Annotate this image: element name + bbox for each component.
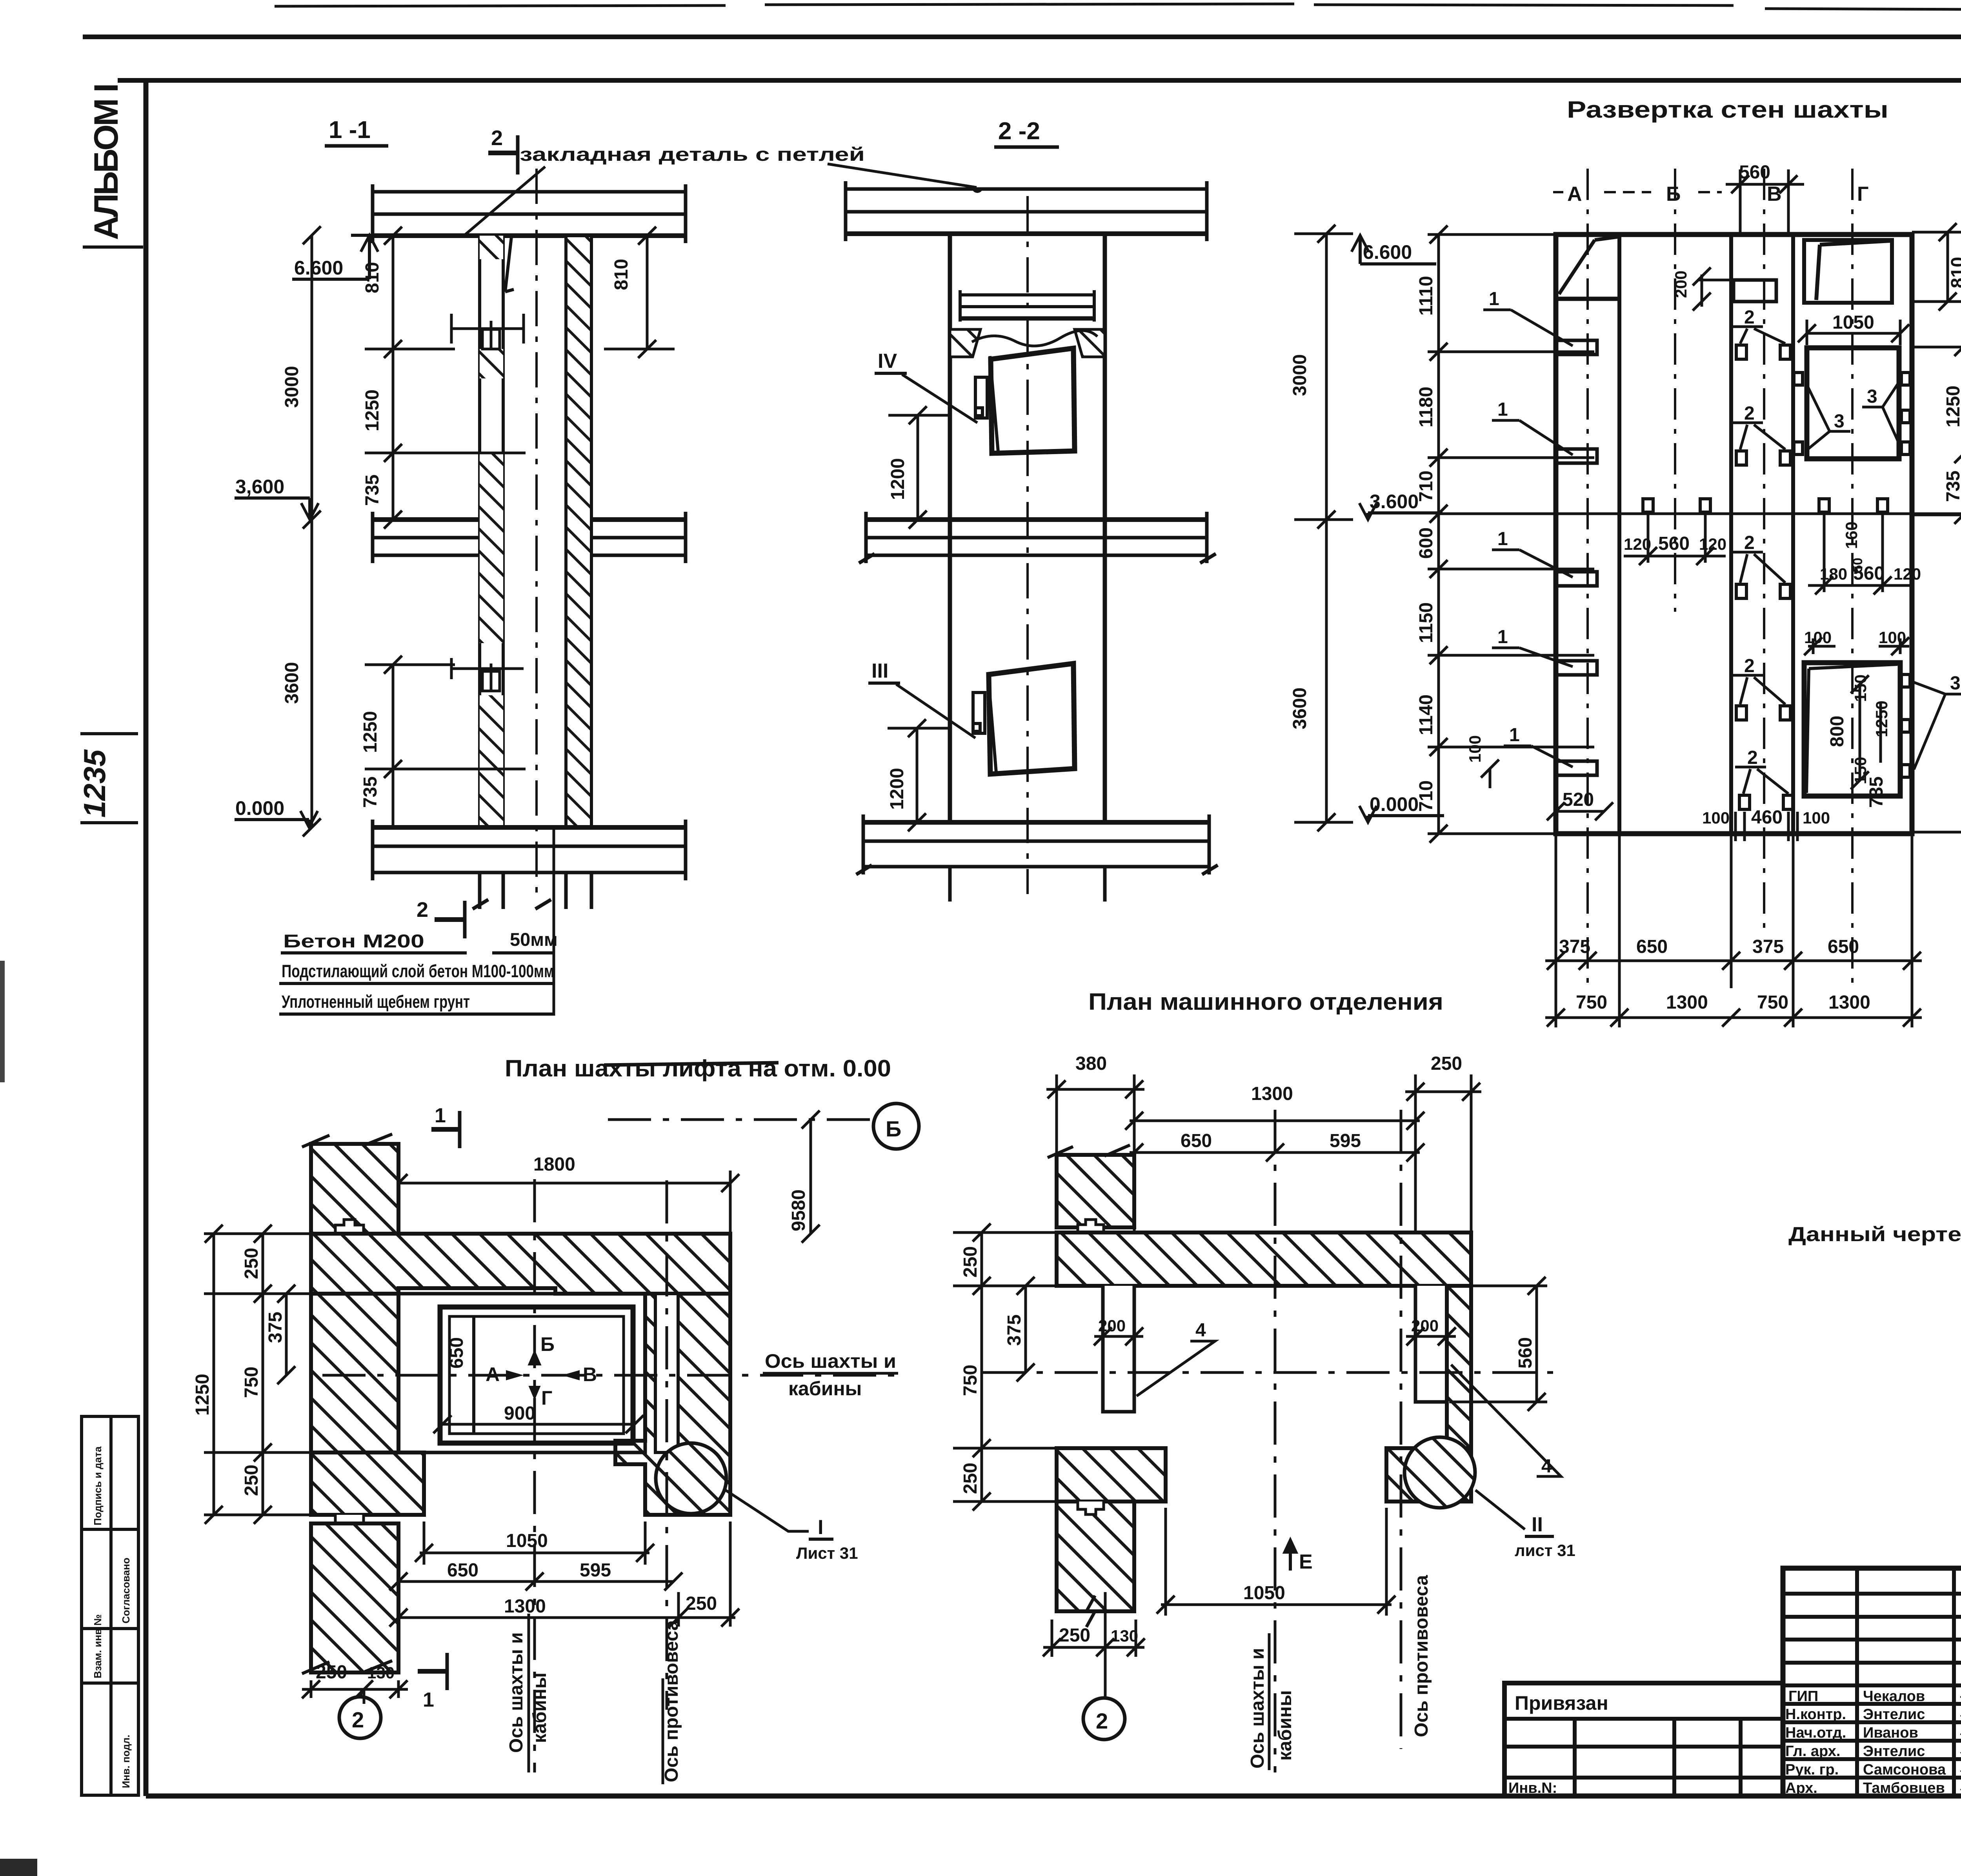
svg-text:Н.контр.: Н.контр. [1785, 1706, 1846, 1723]
stamp vertical col line 1 [1855, 1568, 1859, 1796]
svg-text:Ось противовеса: Ось противовеса [661, 1620, 682, 1782]
svg-text:Б: Б [540, 1333, 555, 1355]
svg-text:100: 100 [1702, 809, 1730, 827]
svg-text:180: 180 [1820, 565, 1847, 583]
axis circle 2 connector [361, 1689, 362, 1697]
dim 1300 machine [1125, 1106, 1424, 1232]
svg-text:6.600: 6.600 [1363, 241, 1412, 263]
development bottom extensions [1545, 834, 1922, 1027]
svg-text:100: 100 [1804, 628, 1832, 647]
cut mark 2 bottom [435, 901, 465, 938]
mid anchors strip B [1624, 499, 1726, 565]
left edge scan streak [0, 961, 5, 1082]
svg-text:План шахты лифта на отм. 0.: План шахты лифта на отм. 0.00 [505, 1055, 891, 1082]
svg-text:810: 810 [611, 259, 632, 290]
wall A top fold line [1556, 237, 1619, 299]
svg-text:Подпись и дата: Подпись и дата [92, 1446, 104, 1525]
machine joint notch bottom [1078, 1502, 1104, 1514]
1235 tick bottom [80, 821, 138, 824]
mid door label 3 left [1806, 382, 1850, 451]
level 3.600 flag left [235, 498, 318, 520]
svg-text:1150: 1150 [1416, 602, 1437, 643]
cabin inner rect [449, 1316, 624, 1434]
dim 560 top [1726, 169, 1804, 234]
2-2 wall stubs below [948, 867, 952, 902]
note line 1b underline [492, 951, 554, 954]
label III underline [868, 682, 900, 685]
svg-text:650: 650 [447, 1560, 478, 1581]
left wall hatch A [480, 236, 503, 259]
machine left column upper [1057, 1155, 1134, 1227]
1235 tick top [80, 732, 138, 735]
svg-text:750: 750 [241, 1367, 262, 1398]
machine horizontal axis [982, 1371, 1553, 1374]
wall G top opening [1804, 240, 1892, 303]
plan vertical axis [533, 1179, 536, 1772]
label 3 right of development [1914, 673, 1961, 769]
ledge label 3 [1492, 529, 1573, 577]
svg-text:4: 4 [1195, 1320, 1206, 1341]
right chain 810 [1939, 223, 1957, 311]
joint notch bottom [335, 1515, 364, 1529]
axis V [1763, 169, 1765, 933]
svg-text:В: В [583, 1363, 597, 1385]
dim 250 top right [1405, 1074, 1481, 1232]
guide ledge 4 [1556, 661, 1597, 675]
svg-text:3000: 3000 [282, 366, 302, 408]
dim 1200 upper [888, 406, 949, 529]
svg-text:Нач.отд.: Нач.отд. [1785, 1725, 1846, 1741]
axis labels right underline [763, 1372, 898, 1375]
svg-text:375: 375 [1752, 936, 1784, 957]
svg-text:250: 250 [686, 1593, 717, 1614]
left upper column break [302, 1134, 392, 1147]
svg-text:250: 250 [241, 1465, 262, 1496]
svg-text:Лист 31: Лист 31 [796, 1544, 858, 1562]
svg-text:3600: 3600 [1290, 687, 1310, 729]
embedded detail dot [972, 187, 983, 193]
dim 100 above lower door left [1804, 637, 1835, 655]
left wall hatch C [480, 453, 503, 643]
lower door fold [1806, 669, 1809, 793]
svg-text:100: 100 [1879, 628, 1906, 647]
svg-text:1140: 1140 [1416, 694, 1437, 735]
machine bottom wall left part [1057, 1448, 1166, 1502]
svg-text:2: 2 [352, 1707, 364, 1732]
counterweight axis line [666, 1180, 668, 1710]
svg-text:750: 750 [1757, 992, 1788, 1013]
machine vertical axis cabin [1274, 1110, 1277, 1772]
svg-text:2: 2 [1744, 307, 1755, 328]
level 0.000 flag left [235, 811, 318, 827]
attachment row 2 [1504, 1776, 1783, 1780]
svg-text:250: 250 [241, 1248, 262, 1279]
machine axis circle 2 [1083, 1698, 1125, 1740]
svg-text:ГИП: ГИП [1788, 1688, 1818, 1705]
svg-text:1: 1 [1497, 627, 1508, 647]
ledge label 5 [1504, 725, 1573, 767]
bottom chain 2 line [1545, 1016, 1922, 1019]
svg-text:735: 735 [360, 776, 381, 808]
anchor pair 5 strip V bottom [1735, 767, 1794, 809]
svg-text:200: 200 [1098, 1316, 1126, 1335]
machine floor corbel left [950, 329, 980, 357]
shaft inner boundary [398, 1294, 645, 1452]
svg-text:кабины: кабины [788, 1378, 862, 1400]
joint notch top [335, 1220, 364, 1234]
svg-text:Гл. арх.: Гл. арх. [1785, 1743, 1840, 1760]
svg-text:200: 200 [1411, 1316, 1439, 1335]
door IV fold [990, 356, 998, 452]
2-2 top slab bottom [846, 231, 1207, 236]
E arrow [1285, 1540, 1296, 1571]
lower door side squares right [1901, 674, 1910, 777]
left upper column [311, 1144, 398, 1234]
right wall hatched [566, 236, 591, 827]
svg-text:130: 130 [367, 1663, 395, 1682]
mid door side squares left [1794, 373, 1803, 454]
svg-text:IV: IV [878, 350, 897, 373]
svg-text:595: 595 [580, 1560, 611, 1581]
guide ledge 1 [1556, 340, 1597, 354]
top slab right edge [684, 184, 688, 243]
right chain 1250 735 [1954, 338, 1961, 524]
svg-text:380: 380 [1075, 1053, 1107, 1074]
leader to slab 2-2 [828, 164, 977, 187]
svg-text:460: 460 [1751, 807, 1783, 828]
leader to wall 1-1 [464, 167, 545, 235]
svg-text:1800: 1800 [533, 1154, 575, 1175]
machine joint notch top [1078, 1220, 1104, 1232]
axis A [1586, 169, 1589, 988]
svg-text:650: 650 [1181, 1131, 1212, 1151]
left chain 250 750 250 [204, 1225, 312, 1524]
machine bottom wall right part [1386, 1448, 1471, 1502]
2-2 middle floor [859, 512, 1216, 563]
strip boundary VG [1791, 234, 1795, 834]
axis G [1851, 169, 1854, 988]
dim 1200 lower [888, 719, 948, 831]
svg-text:1: 1 [1509, 725, 1520, 745]
cabin left inner line [472, 1316, 475, 1434]
svg-text:810: 810 [362, 262, 383, 293]
scan noise top streak [275, 4, 1961, 16]
svg-text:710: 710 [1416, 780, 1437, 812]
machine left column break top [1048, 1145, 1130, 1158]
label 4 right leader [1451, 1365, 1561, 1476]
anchor pair 3 strip V [1732, 552, 1790, 598]
top slab bottom line [373, 233, 686, 238]
svg-text:АЛЬБОМ I: АЛЬБОМ I [87, 83, 125, 240]
machine vertical axis counterweight [1400, 1110, 1403, 1749]
machine dim 200 left [1094, 1327, 1143, 1345]
svg-text:560: 560 [1739, 162, 1770, 183]
svg-text:9580: 9580 [788, 1189, 809, 1231]
lower door inner dims [1851, 675, 1881, 789]
bottom frame line [146, 1794, 1961, 1799]
2-2 bottom floor [856, 814, 1218, 902]
svg-text:Ось противовеса: Ось противовеса [1411, 1575, 1432, 1737]
left wall anchor detail 1 [451, 314, 524, 349]
machine dim 1050 [1157, 1508, 1395, 1616]
svg-text:Бетон М200: Бетон М200 [283, 931, 424, 951]
svg-text:Инв.N:: Инв.N: [1508, 1780, 1557, 1796]
label IV underline [875, 372, 907, 375]
left lower column [311, 1523, 398, 1672]
anchor pair 2 strip V [1732, 423, 1790, 465]
dim 650 595 line [389, 1572, 682, 1591]
svg-text:375: 375 [1004, 1314, 1025, 1346]
door IV panel [991, 348, 1075, 453]
svg-text:1250: 1250 [1872, 701, 1891, 737]
svg-text:120: 120 [1624, 535, 1651, 553]
dim 100 460 100 bottom strip V [1731, 812, 1804, 841]
shaft axis label underline rot [528, 1614, 530, 1772]
svg-text:лист 31: лист 31 [1515, 1541, 1575, 1560]
machine right stub wall [1415, 1286, 1447, 1402]
machine beam lines [960, 290, 1094, 322]
svg-text:650: 650 [1828, 936, 1859, 957]
ledge label 2 [1492, 399, 1573, 455]
role texts [1785, 1688, 1946, 1796]
note line 3 underline [279, 1013, 554, 1016]
svg-text:100: 100 [1803, 809, 1830, 827]
machine chain 375 [1017, 1277, 1035, 1382]
stamp thin row lines [1783, 1592, 1961, 1596]
svg-text:6.600: 6.600 [294, 257, 343, 279]
left chain 1250 [205, 1225, 223, 1524]
extension lines left [204, 1232, 312, 1235]
svg-text:250: 250 [316, 1662, 347, 1683]
svg-text:595: 595 [1330, 1131, 1361, 1151]
bottom chain 1 line [1545, 960, 1922, 962]
section 2-2 title underline [994, 145, 1059, 149]
level 3600 horizontal line [1439, 513, 1961, 515]
attachment col 3 [1739, 1719, 1743, 1796]
strip boundary BV [1729, 234, 1733, 834]
2-2 top slab edges [844, 181, 848, 241]
axis dots line [1553, 191, 1722, 193]
dim 900 line [433, 1415, 644, 1433]
mid door side squares right [1901, 373, 1910, 454]
middle floor 3.600 [373, 512, 686, 563]
door IV bracket [975, 377, 987, 418]
stamp outer box [1783, 1568, 1961, 1796]
svg-text:В: В [1767, 183, 1782, 205]
left main dim line [303, 226, 321, 836]
svg-text:кабины: кабины [529, 1672, 550, 1743]
cabin outer rect [440, 1307, 633, 1443]
svg-text:160: 160 [1842, 522, 1861, 549]
svg-text:900: 900 [504, 1403, 535, 1424]
dim 100 above lower door right [1879, 637, 1909, 655]
svg-text:Ось шахты и: Ось шахты и [765, 1350, 896, 1372]
dim 1300 line [389, 1522, 739, 1627]
svg-text:2: 2 [1747, 747, 1758, 768]
svg-text:650: 650 [1636, 936, 1668, 957]
svg-text:1: 1 [423, 1689, 434, 1711]
svg-text:Е: Е [1299, 1551, 1313, 1573]
svg-text:2: 2 [491, 126, 503, 150]
left wall hatch B [480, 349, 503, 378]
svg-text:560: 560 [1658, 533, 1690, 554]
anchor pair 4 strip V [1732, 675, 1790, 720]
svg-text:Данный чертеж рассматривать: Данный чертеж рассматривать совместно с … [1788, 1223, 1961, 1246]
svg-text:560: 560 [1515, 1337, 1536, 1369]
svg-text:650: 650 [446, 1337, 467, 1369]
stamp vertical col line 2 [1952, 1568, 1956, 1796]
cut mark 1 top [431, 1111, 460, 1148]
note line 1 underline [281, 951, 467, 954]
2-2 centerline [1026, 196, 1029, 894]
anchor pair 1 strip V [1732, 327, 1790, 359]
svg-text:2: 2 [1744, 533, 1755, 553]
guide ledge 5 [1556, 761, 1597, 775]
attachment header underline [1504, 1717, 1783, 1721]
inner chain 375 [277, 1285, 295, 1384]
svg-text:1: 1 [1497, 529, 1508, 549]
svg-text:750: 750 [1576, 992, 1607, 1013]
section II underline [1525, 1535, 1554, 1538]
svg-text:2: 2 [417, 898, 428, 922]
pit leader vertical [553, 825, 555, 1016]
bottom wall left part [311, 1452, 424, 1515]
svg-text:Тамбовцев: Тамбовцев [1863, 1780, 1945, 1796]
attachment col 1 [1573, 1719, 1577, 1796]
svg-text:1235: 1235 [77, 749, 112, 818]
right level dim line [1294, 225, 1353, 831]
svg-text:250: 250 [1059, 1625, 1090, 1646]
svg-text:3.600: 3.600 [1370, 491, 1419, 513]
2-2 left wall [948, 234, 952, 822]
left lower column break [302, 1661, 392, 1674]
section 1-1 title underline [325, 144, 388, 148]
leader to I [726, 1490, 809, 1531]
svg-text:Привязан: Привязан [1515, 1692, 1608, 1714]
machine dim 250 130 bottom [1043, 1592, 1145, 1698]
svg-text:1250: 1250 [192, 1374, 213, 1416]
svg-text:1110: 1110 [1416, 276, 1437, 316]
svg-text:1250: 1250 [362, 389, 383, 431]
svg-text:120: 120 [1894, 565, 1921, 583]
cut mark 2 top [488, 135, 518, 175]
title strike line [604, 1063, 779, 1065]
svg-text:1200: 1200 [888, 458, 908, 500]
svg-text:А: А [486, 1363, 500, 1385]
inner dim chain upper [365, 227, 526, 529]
machine floor corbel right [1075, 329, 1105, 357]
svg-text:Г: Г [1857, 183, 1868, 205]
section I underline [809, 1538, 833, 1541]
2-2 top slab line2 [846, 210, 1207, 214]
svg-text:Согласовано: Согласовано [120, 1558, 132, 1623]
left wall outline [480, 236, 503, 827]
axis B circle [873, 1103, 919, 1149]
svg-text:2 -2: 2 -2 [998, 118, 1040, 145]
top wall band [311, 1234, 730, 1294]
svg-text:200: 200 [1672, 271, 1690, 298]
svg-text:Арх.: Арх. [1785, 1780, 1817, 1796]
svg-text:Б: Б [1666, 183, 1681, 205]
leader IV [902, 374, 977, 423]
inner dim chain lower [365, 656, 526, 827]
axis letters [486, 1333, 597, 1409]
dim 380 [1046, 1074, 1144, 1155]
label 4 left leader [1137, 1341, 1215, 1396]
section II circle hatched [1404, 1437, 1475, 1508]
svg-text:1250: 1250 [1943, 385, 1961, 427]
svg-text:375: 375 [265, 1312, 286, 1343]
svg-text:Развертка стен шахты: Развертка стен шахты [1567, 96, 1888, 123]
svg-text:1300: 1300 [504, 1596, 546, 1617]
svg-text:кабины: кабины [1275, 1690, 1295, 1761]
svg-text:III: III [871, 660, 888, 682]
section I circle hatched [656, 1443, 726, 1514]
door III panel [989, 664, 1075, 774]
svg-text:1050: 1050 [506, 1531, 548, 1551]
album tick [83, 245, 143, 249]
right extension lines [1912, 232, 1961, 832]
svg-text:Иванов: Иванов [1863, 1725, 1918, 1741]
svg-text:II: II [1532, 1513, 1543, 1536]
stamp name row lines [1783, 1702, 1961, 1706]
svg-text:А: А [1567, 183, 1582, 205]
strip boundary AB [1617, 234, 1621, 834]
svg-text:закладная деталь с петлей: закладная деталь с петлей [520, 144, 865, 165]
attachment row 1 [1504, 1745, 1783, 1749]
svg-text:1050: 1050 [1832, 312, 1874, 333]
leader III [896, 684, 975, 738]
door III fold [988, 672, 996, 773]
guide ledge 3 [1556, 572, 1597, 586]
svg-text:1300: 1300 [1251, 1083, 1293, 1104]
left dim chain line [1428, 225, 1594, 843]
top axis dash line [608, 1118, 871, 1121]
svg-text:250: 250 [960, 1463, 981, 1494]
svg-text:Самсонова: Самсонова [1863, 1761, 1946, 1778]
embedded detail fold at wall top [505, 237, 514, 292]
2-2 top slab line1 [846, 187, 1207, 191]
svg-text:735: 735 [1866, 776, 1887, 808]
outer top border line [83, 35, 1961, 39]
svg-text:750: 750 [960, 1365, 981, 1396]
svg-text:3: 3 [1867, 386, 1877, 407]
svg-text:Ось шахты и: Ось шахты и [1247, 1648, 1268, 1769]
svg-text:100: 100 [1466, 735, 1484, 763]
svg-text:375: 375 [1559, 936, 1590, 957]
svg-text:710: 710 [1416, 471, 1437, 502]
svg-text:1180: 1180 [1416, 387, 1437, 427]
svg-text:1300: 1300 [1828, 992, 1870, 1013]
left chain extension lines [1428, 233, 1557, 236]
ledge label 4 [1492, 627, 1573, 667]
svg-text:1050: 1050 [1243, 1583, 1285, 1603]
machine left stub wall [1103, 1286, 1134, 1412]
svg-text:Уплотненный щебнем грунт: Уплотненный щебнем грунт [282, 992, 470, 1012]
attachment col 2 [1672, 1719, 1676, 1796]
right wall block [615, 1294, 730, 1515]
bottom-left scan smudge [0, 1859, 37, 1876]
machine top wall band [1057, 1232, 1471, 1286]
svg-text:1: 1 [1489, 289, 1499, 309]
machine left column lower [1057, 1502, 1134, 1611]
svg-text:560: 560 [1853, 563, 1885, 584]
mid door label 3 right [1862, 380, 1901, 447]
svg-text:735: 735 [362, 474, 383, 506]
note line 2 underline [279, 982, 554, 985]
svg-text:1: 1 [1497, 399, 1508, 420]
dim 250 130 bottom [302, 1680, 408, 1704]
